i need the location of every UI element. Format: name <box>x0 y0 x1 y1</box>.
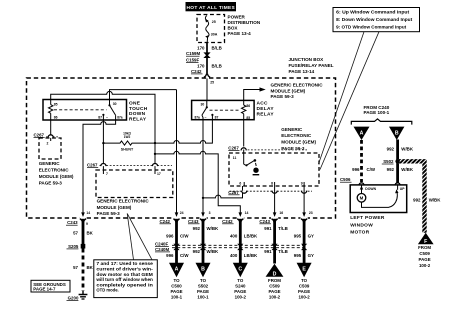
splice S502 node <box>395 159 399 163</box>
svg-text:TO: TO <box>173 278 180 283</box>
junction box label <box>289 57 334 74</box>
svg-text:17: 17 <box>157 172 161 176</box>
wire E: GEM pin 9 down <box>303 186 305 213</box>
svg-text:W/BK: W/BK <box>401 167 414 172</box>
GEM label (box2) <box>97 199 150 217</box>
svg-text:S205: S205 <box>68 244 79 249</box>
svg-text:GENERIC ELECTRONIC: GENERIC ELECTRONIC <box>271 82 324 87</box>
svg-text:B/LB: B/LB <box>212 64 222 69</box>
svg-text:9: 9 <box>86 222 88 226</box>
svg-text:25: 25 <box>210 81 214 85</box>
HOT AT ALL TIMES banner <box>186 2 237 11</box>
wire E thick <box>303 219 306 264</box>
wire D thick <box>273 219 276 264</box>
relay switch pins 30 87 87a <box>98 100 123 120</box>
junction node resistor line to coil wire <box>154 142 156 144</box>
svg-text:170: 170 <box>197 45 205 50</box>
splice S502 <box>382 159 394 164</box>
motor label <box>350 215 385 235</box>
callout lines from note box to pins 7 17 <box>127 214 133 260</box>
svg-text:16: 16 <box>279 211 283 215</box>
svg-text:170: 170 <box>197 64 205 69</box>
svg-text:PAGE 59-3: PAGE 59-3 <box>281 146 305 151</box>
svg-text:BK: BK <box>87 265 94 270</box>
left power window motor box <box>350 185 407 213</box>
svg-text:995: 995 <box>294 253 302 258</box>
arrow pin 3 <box>201 212 205 217</box>
motor M1 <box>357 185 405 208</box>
svg-text:85: 85 <box>246 116 250 120</box>
junction box fuse/relay panel (big dashed box) <box>27 78 336 218</box>
svg-text:WINDOW: WINDOW <box>350 222 373 228</box>
fuse 25 30A <box>205 16 218 43</box>
svg-text:FUSE/RELAY PANEL: FUSE/RELAY PANEL <box>289 63 334 68</box>
connector C240F C240M row <box>155 241 307 252</box>
svg-text:ACC: ACC <box>257 101 269 107</box>
svg-text:30: 30 <box>201 103 205 107</box>
svg-text:6: Up Window Command Input: 6: Up Window Command Input <box>336 10 410 15</box>
svg-text:PAGE 59-3: PAGE 59-3 <box>271 94 295 99</box>
svg-text:C243: C243 <box>188 219 199 224</box>
svg-text:FROM: FROM <box>268 278 281 283</box>
svg-text:LEFT POWER: LEFT POWER <box>350 215 385 221</box>
svg-text:PAGE 13-14: PAGE 13-14 <box>289 69 315 74</box>
svg-text:B/LB: B/LB <box>212 45 222 50</box>
svg-text:A: A <box>175 267 179 273</box>
wire 996 dashed to C506 <box>360 140 363 182</box>
svg-text:~: ~ <box>106 116 108 120</box>
svg-text:996: 996 <box>166 253 174 258</box>
wire D: GEM pin 8 down <box>274 186 276 213</box>
junction node shunt tap <box>102 142 104 144</box>
svg-text:C/W: C/W <box>180 253 189 258</box>
svg-text:992: 992 <box>193 249 201 254</box>
svg-text:DOWN: DOWN <box>129 111 146 117</box>
svg-text:RELAY: RELAY <box>129 116 147 122</box>
off-page arrow A <box>169 263 184 300</box>
wire S: node to wire C feed <box>155 151 240 213</box>
GEM label (box1) <box>39 161 74 186</box>
svg-text:3: 3 <box>209 211 211 215</box>
pins 7 and 17 <box>103 170 160 176</box>
svg-text:57: 57 <box>73 265 78 270</box>
svg-text:6: 6 <box>239 181 241 185</box>
svg-text:UP: UP <box>400 187 405 191</box>
svg-text:100-2: 100-2 <box>235 294 247 299</box>
svg-text:GENERIC: GENERIC <box>281 127 303 132</box>
svg-text:W/BK: W/BK <box>207 249 220 254</box>
svg-text:100-2: 100-2 <box>269 294 281 299</box>
svg-text:C267: C267 <box>228 190 239 195</box>
svg-text:992: 992 <box>193 226 201 231</box>
svg-text:BK: BK <box>87 231 94 236</box>
svg-text:TO: TO <box>200 278 207 283</box>
svg-text:8: Down Window Command Input: 8: Down Window Command Input <box>336 17 413 22</box>
svg-text:GY: GY <box>308 253 314 258</box>
wire labels below C240 row <box>166 249 314 258</box>
acc relay switch pins 30 87a 87 <box>194 100 218 120</box>
bump at box edge <box>203 77 210 80</box>
svg-text:E: E <box>302 267 306 273</box>
svg-text:991: 991 <box>264 226 272 231</box>
wire 170 B/LB fuse to C159 <box>206 43 208 53</box>
svg-text:85: 85 <box>54 103 58 107</box>
wire acc coil 85 down to C267 <box>243 120 245 147</box>
svg-text:OTD mode.: OTD mode. <box>96 288 118 293</box>
svg-text:G200: G200 <box>68 295 79 300</box>
ground wire lower dashed <box>82 249 85 292</box>
svg-text:C159F: C159F <box>186 58 199 63</box>
off-page arrow B <box>196 263 211 300</box>
svg-text:400: 400 <box>230 253 238 258</box>
svg-text:24: 24 <box>180 211 184 215</box>
svg-text:GENERIC ELECTRONIC: GENERIC ELECTRONIC <box>97 199 150 204</box>
off-page arrow C <box>233 263 248 300</box>
svg-text:C159M: C159M <box>186 51 200 56</box>
svg-text:PAGE 100-1: PAGE 100-1 <box>364 110 390 115</box>
off-page arrow F (from) <box>418 233 434 268</box>
svg-text:11: 11 <box>233 156 237 160</box>
svg-text:M: M <box>360 196 364 201</box>
GEM internal switch <box>244 150 260 175</box>
svg-text:ONE: ONE <box>129 101 141 107</box>
svg-text:T/LB: T/LB <box>278 226 288 231</box>
relay control dashed line <box>54 109 107 111</box>
see grounds box <box>31 280 70 292</box>
svg-text:C267: C267 <box>87 163 98 168</box>
svg-text:W/BK: W/BK <box>401 147 414 152</box>
connector labels bottom row <box>160 219 271 224</box>
svg-text:C240M: C240M <box>155 247 169 252</box>
svg-text:MOTOR: MOTOR <box>350 230 370 236</box>
svg-text:TOUCH: TOUCH <box>129 106 148 112</box>
svg-text:TO: TO <box>237 278 244 283</box>
svg-text:400: 400 <box>230 233 238 238</box>
svg-text:57: 57 <box>73 231 78 236</box>
svg-text:LB/BK: LB/BK <box>244 233 258 238</box>
svg-text:C/W: C/W <box>367 167 376 172</box>
svg-text:992: 992 <box>413 197 421 202</box>
FROM C240 header <box>351 105 412 124</box>
svg-text:87: 87 <box>98 115 102 119</box>
svg-text:TO: TO <box>301 278 308 283</box>
acc relay control dashed <box>210 109 241 111</box>
svg-text:dow motor so that GEM: dow motor so that GEM <box>96 272 153 277</box>
wire 170 B/LB C159 to C242 <box>206 58 208 75</box>
wire A vertical (996) inside box <box>176 90 178 213</box>
wire 17 down to GEM pin 17 <box>154 154 156 170</box>
svg-text:PAGE 59-3: PAGE 59-3 <box>39 181 63 186</box>
svg-text:7: 7 <box>106 172 108 176</box>
svg-text:100-1: 100-1 <box>197 294 209 299</box>
svg-text:C243: C243 <box>67 220 78 225</box>
svg-text:86: 86 <box>246 104 250 108</box>
pin 2 <box>50 138 52 141</box>
wire H1: pin 30 up and right <box>110 90 177 100</box>
connector C159M C159F <box>186 51 211 62</box>
svg-text:1W2: 1W2 <box>124 135 131 139</box>
svg-text:C506: C506 <box>340 177 351 182</box>
svg-text:C242: C242 <box>222 219 233 224</box>
off-page arrow B (right) <box>389 127 404 140</box>
svg-text:T/LB: T/LB <box>278 249 288 254</box>
svg-text:FROM: FROM <box>418 245 431 250</box>
svg-text:PAGE 13-4: PAGE 13-4 <box>228 31 252 36</box>
connector C267 (GEM box 2) <box>87 163 172 168</box>
svg-text:9: 9 <box>301 181 303 185</box>
svg-text:current of driver's win-: current of driver's win- <box>96 267 153 272</box>
svg-text:C242: C242 <box>160 219 171 224</box>
svg-text:87a: 87a <box>194 116 200 120</box>
wire from relay 87 down to GEM pin 7 <box>102 115 104 170</box>
off-page arrow A (right) <box>354 127 370 140</box>
svg-text:C242: C242 <box>191 69 202 74</box>
svg-text:B: B <box>201 267 205 273</box>
svg-text:GY: GY <box>308 233 314 238</box>
wire labels above C240 row <box>166 226 314 239</box>
svg-text:C240F: C240F <box>155 241 168 246</box>
arrow pin 14 (wire C) <box>239 212 243 217</box>
svg-text:14: 14 <box>86 211 90 215</box>
hatched wire 992 to F <box>398 161 425 233</box>
svg-text:9: OTD Window Command Input: 9: OTD Window Command Input <box>336 25 407 30</box>
svg-text:87a: 87a <box>117 115 123 119</box>
svg-text:996: 996 <box>166 233 174 238</box>
bottom edge bumps wires A-E <box>173 217 180 220</box>
svg-text:996: 996 <box>352 167 360 172</box>
node pin6 line joins wire B <box>202 197 204 199</box>
ground G200 <box>67 291 88 300</box>
connector C506 <box>340 177 400 185</box>
GEM connector C267 (one touch coil) <box>34 120 59 137</box>
svg-text:2: 2 <box>47 141 49 145</box>
wire B thick <box>202 219 205 264</box>
power distribution box (dashed) <box>197 15 225 43</box>
wire B: acc 87a down to pin 3 <box>202 115 203 213</box>
svg-text:ELECTRONIC: ELECTRONIC <box>39 168 70 173</box>
svg-text:W/BK: W/BK <box>207 226 220 231</box>
svg-text:992: 992 <box>387 167 395 172</box>
svg-text:25: 25 <box>212 20 216 24</box>
svg-text:995: 995 <box>294 233 302 238</box>
GEM box3 bottom pins 6 8 9 <box>239 181 304 186</box>
svg-text:MODULE (GEM): MODULE (GEM) <box>97 205 132 210</box>
splice S205 <box>67 244 86 249</box>
wire 992 W/BK from B <box>396 140 399 185</box>
GEM label (box3) <box>281 127 316 151</box>
wire acc coil 86 to GEM arrow <box>244 90 260 101</box>
svg-text:A: A <box>360 130 364 136</box>
wire H2: coil 85 up and right to GEM pin 17 feed <box>51 91 155 153</box>
pin bumps <box>230 190 313 192</box>
node on pin17 wire <box>154 153 156 155</box>
svg-text:HOT AT ALL TIMES: HOT AT ALL TIMES <box>187 5 236 11</box>
svg-text:7 and 17: Used to sense: 7 and 17: Used to sense <box>96 261 153 266</box>
svg-text:POWER: POWER <box>228 14 246 19</box>
svg-text:30A: 30A <box>211 32 218 36</box>
svg-text:LB/BK: LB/BK <box>244 253 258 258</box>
svg-text:C509: C509 <box>299 284 310 289</box>
GEM module box 2 (middle) <box>96 170 173 198</box>
arrow pin 24 <box>175 212 179 217</box>
shunt resistor R1 and wire to ACC relay 87 <box>103 115 212 151</box>
svg-text:PAGE 59-3: PAGE 59-3 <box>97 211 121 216</box>
relay coil (one touch) <box>49 100 58 121</box>
wire from C242 to ACC relay pin 30 <box>206 79 208 101</box>
svg-text:992: 992 <box>387 147 395 152</box>
svg-text:W/BK: W/BK <box>429 197 442 202</box>
svg-text:RELAY: RELAY <box>257 111 275 117</box>
svg-text:C500: C500 <box>171 284 182 289</box>
svg-text:GENERIC: GENERIC <box>39 161 61 166</box>
svg-text:100-1: 100-1 <box>171 294 183 299</box>
svg-text:86: 86 <box>54 116 58 120</box>
arrow pin 14 <box>81 212 85 217</box>
svg-text:991: 991 <box>264 249 272 254</box>
off-page arrow D (from) <box>266 264 284 300</box>
svg-text:PAGE 14-7: PAGE 14-7 <box>33 287 56 292</box>
svg-text:~: ~ <box>205 116 207 120</box>
svg-text:DELAY: DELAY <box>257 106 275 112</box>
svg-text:SHUNT: SHUNT <box>121 147 134 151</box>
wire from GEM pin 6 to wire B <box>203 186 243 198</box>
svg-text:DOWN: DOWN <box>365 187 376 191</box>
svg-text:23: 23 <box>309 211 313 215</box>
svg-text:87: 87 <box>215 115 219 119</box>
svg-text:C509: C509 <box>419 251 430 256</box>
power distribution box label <box>228 14 261 36</box>
wire C thick <box>239 219 242 264</box>
svg-text:will turn off window when: will turn off window when <box>95 277 153 282</box>
wire 87a to ground pin 14 <box>83 115 116 213</box>
svg-text:100-2: 100-2 <box>298 294 310 299</box>
svg-text:MODULE (GEM): MODULE (GEM) <box>281 140 316 145</box>
svg-text:14: 14 <box>245 211 249 215</box>
svg-text:100-2: 100-2 <box>419 263 431 268</box>
svg-text:JUNCTION BOX: JUNCTION BOX <box>289 57 325 62</box>
svg-text:BOX: BOX <box>228 25 239 30</box>
svg-text:S240: S240 <box>235 284 246 289</box>
ground wire C243 57 BK <box>66 217 94 244</box>
callout lines from legend to GEM box <box>319 32 365 164</box>
svg-text:C: C <box>238 267 242 273</box>
legend note box (pin functions) <box>333 8 420 32</box>
svg-text:C267: C267 <box>34 132 45 137</box>
svg-text:S502: S502 <box>198 284 209 289</box>
svg-text:C509: C509 <box>269 284 280 289</box>
svg-text:S502: S502 <box>383 159 394 164</box>
svg-text:C267: C267 <box>228 145 239 150</box>
off-page arrow E <box>297 263 312 300</box>
svg-text:MODULE (GEM): MODULE (GEM) <box>271 89 306 94</box>
svg-text:MODULE (GEM): MODULE (GEM) <box>39 174 74 179</box>
acc relay coil <box>242 100 251 120</box>
svg-text:8: 8 <box>271 181 273 185</box>
svg-text:DISTRIBUTION: DISTRIBUTION <box>228 20 261 25</box>
svg-text:C243: C243 <box>259 219 270 224</box>
GEM module box 3 (right) <box>229 153 319 186</box>
GEM label top <box>271 82 324 99</box>
note box 7 and 17 <box>94 260 158 298</box>
GEM module box 1 (small left) <box>39 138 61 159</box>
one touch down relay U1 <box>43 100 148 123</box>
svg-text:ELECTRONIC: ELECTRONIC <box>281 133 312 138</box>
svg-text:PAGE: PAGE <box>419 257 431 262</box>
acc delay relay U2 <box>192 100 275 119</box>
svg-text:30: 30 <box>113 102 117 106</box>
svg-text:C/W: C/W <box>180 233 189 238</box>
svg-text:B: B <box>395 130 399 136</box>
svg-text:completely opened in: completely opened in <box>96 282 153 287</box>
svg-text:D: D <box>273 271 277 277</box>
wire A thick <box>175 219 178 264</box>
